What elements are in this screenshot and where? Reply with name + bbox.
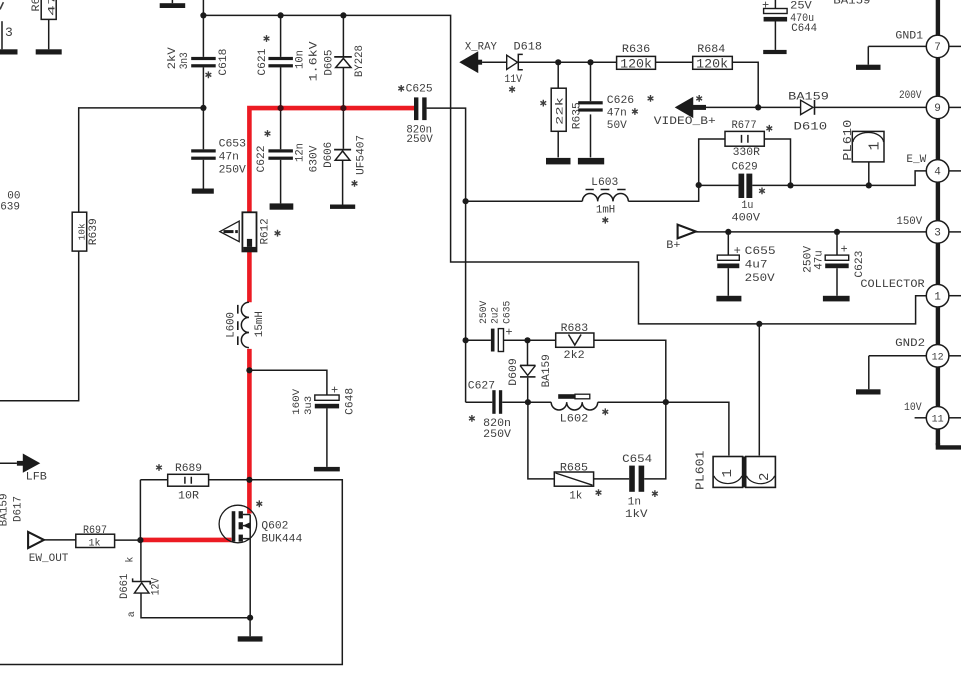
wire junction to D661 xyxy=(140,540,142,581)
inductor L602 xyxy=(551,394,598,410)
asterisk C618 xyxy=(206,71,212,78)
svg-text:E_W: E_W xyxy=(906,154,926,166)
svg-text:1.6kV: 1.6kV xyxy=(309,41,321,81)
wire rail to D605 xyxy=(342,15,344,56)
junction C623 tap xyxy=(834,229,840,235)
ground (C653) xyxy=(192,189,214,194)
wire to R635 xyxy=(557,62,559,88)
wire R639 down and off left edge xyxy=(0,251,79,401)
svg-text:C653: C653 xyxy=(219,139,246,151)
wire R689 left xyxy=(140,479,167,481)
transistor Q602 (BUK444 MOSFET) xyxy=(219,505,257,543)
resistor R683 xyxy=(556,333,594,347)
wire D606 to ground xyxy=(342,160,344,204)
wire node to L603 xyxy=(466,200,583,202)
wire B+ to pin 3 (150V) xyxy=(696,231,927,233)
svg-text:Q602: Q602 xyxy=(261,520,288,532)
wire L603 to R677 branch xyxy=(628,139,725,201)
wire pin4 right stub xyxy=(949,170,961,172)
junction R635 tap xyxy=(555,59,561,65)
ground (C622) xyxy=(270,203,294,209)
svg-text:250V: 250V xyxy=(483,429,511,441)
wire D618 to R636 xyxy=(518,61,616,63)
svg-text:L603: L603 xyxy=(591,177,618,189)
asterisk R689 xyxy=(156,464,162,471)
svg-text:BY228: BY228 xyxy=(354,45,366,77)
svg-text:250V: 250V xyxy=(479,301,490,324)
wire R689 left branch down xyxy=(139,480,141,540)
svg-text:R685: R685 xyxy=(560,462,588,474)
resistor R684 xyxy=(693,56,733,69)
diode D605 (BY228) xyxy=(334,57,352,68)
junction L603 wire xyxy=(463,198,469,204)
svg-text:BA159: BA159 xyxy=(541,354,553,387)
wire C629 right xyxy=(752,184,790,186)
wire R677 right down xyxy=(764,139,790,185)
ground (C655) xyxy=(716,296,741,302)
asterisk C625 xyxy=(398,85,404,92)
svg-text:C626: C626 xyxy=(607,95,634,107)
svg-text:3n3: 3n3 xyxy=(179,52,191,69)
capacitor C635 (electrolytic, horizontal) xyxy=(491,329,504,352)
wire EW_OUT to R697 xyxy=(44,539,76,541)
asterisk R685 xyxy=(596,489,602,496)
svg-text:47n: 47n xyxy=(607,108,627,120)
svg-text:C655: C655 xyxy=(745,246,776,258)
wire C621 top xyxy=(280,15,282,57)
svg-text:2k2: 2k2 xyxy=(564,350,585,362)
resistor R636 xyxy=(617,56,656,69)
svg-text:11V: 11V xyxy=(504,74,522,86)
junction gate node xyxy=(137,537,143,543)
svg-text:12V: 12V xyxy=(150,577,162,595)
wire C627 to L602 xyxy=(502,401,551,403)
asterisk C629 xyxy=(759,188,765,195)
svg-text:R636: R636 xyxy=(622,44,650,56)
svg-text:3: 3 xyxy=(5,25,13,40)
svg-text:BA159: BA159 xyxy=(788,91,829,103)
svg-text:+: + xyxy=(762,0,769,12)
svg-text:R6: R6 xyxy=(31,0,43,12)
asterisk C622 xyxy=(265,130,271,137)
svg-text:47n: 47n xyxy=(219,152,239,164)
wire to R639 xyxy=(79,108,204,212)
ground (C644) xyxy=(763,50,786,54)
wire R6xx to ground xyxy=(48,19,50,49)
wire to C626 xyxy=(590,62,592,101)
svg-text:EW_OUT: EW_OUT xyxy=(29,553,69,565)
wire R683 right down xyxy=(594,340,666,402)
svg-text:+: + xyxy=(331,384,338,398)
wire R684 to VIDEO_B+ node xyxy=(732,62,758,107)
capacitor C654 (vertical plates) xyxy=(629,466,644,492)
capacitor C625 (vertical plates) xyxy=(414,97,427,120)
wire D609 to L602 node xyxy=(527,378,529,403)
asterisk R612 xyxy=(275,230,281,237)
capacitor C655 (electrolytic) xyxy=(717,255,739,268)
wire GND1 down xyxy=(867,46,869,64)
port arrow EW_OUT (outline, pointing right) xyxy=(28,532,44,548)
wire C644 top xyxy=(774,0,776,9)
svg-text:4u7: 4u7 xyxy=(745,260,768,272)
connector pin 4 xyxy=(926,160,949,183)
svg-text:120k: 120k xyxy=(696,58,728,72)
svg-text:R677: R677 xyxy=(732,120,757,132)
capacitor C621 xyxy=(268,57,293,67)
svg-text:250V: 250V xyxy=(219,165,247,177)
svg-text:250V: 250V xyxy=(406,134,433,146)
wire pin1 right stub xyxy=(949,295,961,297)
junction R677/C629 right xyxy=(787,182,793,188)
svg-text:BA159: BA159 xyxy=(833,0,870,7)
junction top rail / C618 xyxy=(200,12,206,18)
wire pin7 to ground xyxy=(868,45,926,47)
svg-text:C618: C618 xyxy=(218,49,230,76)
wire R635 to ground xyxy=(557,131,559,157)
svg-text:C621: C621 xyxy=(257,48,269,75)
svg-text:15mH: 15mH xyxy=(254,311,266,337)
svg-text:+: + xyxy=(734,244,741,258)
ground (R6xx) xyxy=(36,49,62,54)
wire C655 to ground xyxy=(727,268,729,296)
asterisk C626 xyxy=(632,108,638,115)
ground (C623) xyxy=(823,296,850,302)
svg-text:1k: 1k xyxy=(569,491,582,503)
svg-text:R639: R639 xyxy=(88,218,100,245)
wire PL610 stem xyxy=(868,162,870,186)
wire C623 to ground xyxy=(836,268,838,296)
wire C622 to ground xyxy=(280,160,282,204)
wire pin9 right stub xyxy=(949,106,961,108)
wire highlighted red trace: gate segment xyxy=(140,538,231,543)
ground (R635) xyxy=(546,158,571,165)
svg-text:R683: R683 xyxy=(561,323,588,335)
svg-text:UF5407: UF5407 xyxy=(356,135,368,175)
svg-text:BA159: BA159 xyxy=(0,493,11,526)
svg-text:400V: 400V xyxy=(732,213,761,225)
connector spine (thick) xyxy=(936,0,940,445)
svg-text:1u: 1u xyxy=(741,200,753,212)
capacitor C626 xyxy=(578,101,603,111)
asterisk C627 xyxy=(469,415,475,422)
svg-text:VIDEO_B+: VIDEO_B+ xyxy=(654,116,716,128)
junction R683/C654 node xyxy=(663,399,669,405)
inductor L603 (1mH) xyxy=(582,190,628,202)
zener diode D618 xyxy=(507,54,523,69)
svg-text:50V: 50V xyxy=(607,120,627,132)
svg-text:C654: C654 xyxy=(622,454,652,466)
junction PL610 stem xyxy=(866,182,872,188)
svg-text:1: 1 xyxy=(720,469,736,477)
svg-text:820n: 820n xyxy=(483,418,511,430)
svg-text:120k: 120k xyxy=(620,58,652,72)
wire PL601 pin2 stem xyxy=(758,324,760,456)
wire R636 to R684 xyxy=(656,61,693,63)
wire to C627 xyxy=(466,401,493,403)
V mark inside R683 xyxy=(569,335,582,346)
inductor L600 (15mH) xyxy=(238,302,249,347)
wire D610 to pin 9 (200V) xyxy=(815,106,927,108)
asterisk C621 xyxy=(264,35,270,42)
wire to C623 xyxy=(836,232,838,255)
asterisk L602 xyxy=(602,408,608,415)
svg-text:10R: 10R xyxy=(178,490,199,502)
wire to C648 xyxy=(249,370,327,395)
junction VIDEO_B+ node xyxy=(755,104,761,110)
svg-text:D661: D661 xyxy=(119,573,131,599)
wire VIDEO_B+ to D610 xyxy=(706,106,801,108)
junction C655 tap xyxy=(725,229,731,235)
wire R689 right to red trace xyxy=(209,479,250,481)
junction red trace / D606 (dark) xyxy=(340,105,346,111)
diode D609 (BA159) xyxy=(520,365,536,377)
svg-text:R635: R635 xyxy=(572,102,584,129)
junction top rail / C621 xyxy=(278,12,284,18)
svg-text:D610: D610 xyxy=(794,122,828,134)
svg-text:C648: C648 xyxy=(345,388,357,415)
svg-text:10n: 10n xyxy=(295,50,307,69)
wire pin3 right stub xyxy=(949,231,961,233)
wire to C629 xyxy=(699,184,739,186)
svg-text:3: 3 xyxy=(934,228,941,240)
wire C626 to ground xyxy=(590,114,592,157)
asterisk Q602 xyxy=(256,500,262,507)
svg-text:1: 1 xyxy=(934,292,941,304)
svg-text:4: 4 xyxy=(934,167,941,179)
svg-text:C627: C627 xyxy=(468,380,495,392)
svg-text:11: 11 xyxy=(932,415,944,426)
svg-text:R684: R684 xyxy=(697,44,725,56)
junction red trace / C622 (dark) xyxy=(278,105,284,111)
svg-text:+: + xyxy=(841,243,848,257)
wire L602 to PL601 pin1 xyxy=(598,402,729,455)
wire C654 up to node xyxy=(644,402,666,479)
svg-text:3u3: 3u3 xyxy=(304,396,315,415)
port arrow B+ (outline, pointing right) xyxy=(678,225,696,239)
asterisk R635 xyxy=(540,100,546,107)
svg-text:150V: 150V xyxy=(896,216,922,228)
svg-text:630V: 630V xyxy=(309,145,321,172)
svg-text:R612: R612 xyxy=(259,218,271,244)
capacitor C623 (electrolytic) xyxy=(825,255,849,268)
wire to ground xyxy=(249,618,251,637)
capacitor C622 xyxy=(268,149,293,160)
asterisk R677 xyxy=(766,125,772,132)
junction R689 / red trace xyxy=(246,477,252,483)
jumper mark inside R689 xyxy=(185,477,191,484)
asterisk R684 xyxy=(696,95,702,102)
svg-text:25V: 25V xyxy=(790,1,812,13)
wire C648 to ground xyxy=(326,408,328,467)
ground (D606) xyxy=(330,205,355,209)
ground (Q602 source) xyxy=(238,636,263,641)
svg-text:GND1: GND1 xyxy=(895,30,923,42)
wire stub ground top xyxy=(171,0,173,3)
junction top rail / D605 xyxy=(340,12,346,18)
svg-text:+: + xyxy=(505,325,512,339)
svg-text:L602: L602 xyxy=(560,414,589,426)
svg-text:a: a xyxy=(127,611,138,617)
svg-text:PL601: PL601 xyxy=(693,451,707,490)
svg-text:k: k xyxy=(125,557,137,563)
diode D606 (UF5407) xyxy=(334,150,351,161)
ground (C648) xyxy=(314,467,340,472)
svg-text:D609: D609 xyxy=(508,358,520,386)
diagonal mark inside R685 xyxy=(556,473,593,485)
wire pin7 right stub xyxy=(949,45,961,47)
capacitor C644 (electrolytic) xyxy=(764,9,788,22)
zener diode D661 (12V) xyxy=(133,578,151,593)
fusible resistor R612 xyxy=(242,212,256,251)
connector PL601 xyxy=(713,457,775,488)
svg-text:1kV: 1kV xyxy=(625,509,648,521)
svg-text:B+: B+ xyxy=(666,240,680,252)
port arrow X_RAY (filled, pointing left) xyxy=(461,53,482,72)
port arrow VIDEO_B+ (filled, pointing left) xyxy=(676,98,706,117)
svg-text:L600: L600 xyxy=(226,312,238,338)
wire D661 to source node xyxy=(141,593,250,618)
resistor R6xx (clipped top edge) xyxy=(41,0,56,19)
diode D610 (BA159) xyxy=(801,100,815,115)
junction collector wire / PL601 pin2 stem xyxy=(756,321,762,327)
svg-text:12n: 12n xyxy=(295,143,307,162)
svg-text:R689: R689 xyxy=(175,463,202,475)
junction node R639/C653 xyxy=(200,105,206,111)
ground (clipped, left edge) xyxy=(0,49,18,54)
ground (clipped, top edge) xyxy=(160,3,186,8)
svg-text:C625: C625 xyxy=(406,84,433,96)
wire E_W net to pin 4 xyxy=(791,171,927,186)
wire Q602 source down xyxy=(249,515,251,618)
svg-text:C629: C629 xyxy=(732,162,758,174)
svg-text:7: 7 xyxy=(934,42,941,54)
svg-text:R697: R697 xyxy=(83,525,107,537)
jumper mark inside R677 xyxy=(742,135,748,143)
svg-text:47: 47 xyxy=(47,0,59,16)
wire to C655 xyxy=(727,232,729,255)
wire C625 right, down to C635/C627 node xyxy=(427,108,466,402)
svg-text:200V: 200V xyxy=(899,90,922,102)
svg-text:D618: D618 xyxy=(514,42,543,54)
wire down to R685 xyxy=(528,402,554,479)
svg-text:2: 2 xyxy=(757,473,773,481)
capacitor C653 xyxy=(191,149,216,160)
asterisk L603 xyxy=(602,217,608,224)
junction source / ground xyxy=(247,615,253,621)
connector pin 3 xyxy=(926,221,949,244)
junction C626 tap xyxy=(587,59,593,65)
svg-text:22k: 22k xyxy=(555,97,567,125)
capacitor C629 (vertical plates) xyxy=(739,174,753,198)
ground (GND2) xyxy=(856,389,881,394)
svg-text:COLLECTOR: COLLECTOR xyxy=(860,279,925,291)
svg-text:10k: 10k xyxy=(76,223,87,240)
junction D609 bottom xyxy=(525,399,531,405)
svg-text:LFB: LFB xyxy=(26,472,48,484)
wire (clipped pin 3 lead) xyxy=(1,21,3,49)
svg-text:2kV: 2kV xyxy=(167,47,179,69)
connector spine elbow bottom xyxy=(938,443,961,447)
svg-text:C644: C644 xyxy=(791,23,817,35)
resistor R697 xyxy=(76,534,115,547)
asterisk D606 xyxy=(352,180,358,187)
resistor R689 xyxy=(168,474,209,486)
svg-text:639: 639 xyxy=(0,202,20,214)
wire pin12 right stub xyxy=(949,355,961,357)
wire X_RAY to D618 xyxy=(482,61,507,63)
svg-text:GND2: GND2 xyxy=(895,338,925,350)
wire C635 to R683 xyxy=(504,339,556,341)
wire to D609 xyxy=(527,340,529,365)
ground (GND1) xyxy=(856,65,881,70)
capacitor C627 (vertical plates) xyxy=(492,390,502,414)
wire big loop right-bottom xyxy=(0,480,342,665)
wire LFB from left edge xyxy=(0,462,17,464)
warning triangle mark (R612) xyxy=(220,221,239,242)
resistor R639 xyxy=(72,212,87,251)
junction E_W node left xyxy=(696,182,702,188)
svg-text:D606: D606 xyxy=(323,142,335,168)
svg-text:BUK444: BUK444 xyxy=(261,533,302,545)
junction D609 tap xyxy=(524,337,530,343)
svg-text:1: 1 xyxy=(867,141,884,150)
svg-text:D605: D605 xyxy=(324,50,336,76)
svg-text:C635: C635 xyxy=(503,301,514,324)
connector pin 11 xyxy=(926,407,949,430)
svg-text:47u: 47u xyxy=(813,250,825,270)
wire collector net (top rail, down right side to pin 1) xyxy=(203,15,926,324)
svg-text:10V: 10V xyxy=(904,402,922,414)
junction C648 tap xyxy=(246,367,252,373)
wire R685 to C654 xyxy=(594,478,630,480)
asterisk C654 xyxy=(652,490,658,497)
wire C653 to ground xyxy=(202,160,204,189)
svg-text:C622: C622 xyxy=(256,146,268,173)
connector pin 9 xyxy=(926,96,949,119)
connector pin 1 xyxy=(926,284,949,307)
wire R697 to junction xyxy=(115,539,141,541)
clipped glyph top-left corner xyxy=(0,2,3,9)
resistor R677 xyxy=(725,131,764,146)
capacitor C648 (electrolytic) xyxy=(315,395,339,408)
capacitor C618 xyxy=(191,57,216,67)
svg-text:160V: 160V xyxy=(292,389,303,415)
svg-text:12: 12 xyxy=(932,353,944,364)
wire C618 top (to rail junction) xyxy=(202,0,204,57)
wire GND2 down xyxy=(868,356,870,390)
svg-text:X_RAY: X_RAY xyxy=(465,42,497,54)
svg-text:2u2: 2u2 xyxy=(491,307,502,324)
wire pin11 left stub xyxy=(915,417,927,419)
junction C635 wire xyxy=(463,337,469,343)
wire pin12 to ground xyxy=(869,355,927,357)
svg-text:1mH: 1mH xyxy=(596,205,615,217)
svg-text:1k: 1k xyxy=(89,537,101,549)
wire highlighted red trace: C625 left plate, down through R612/L600 to Q602 drain xyxy=(249,108,414,513)
wire C621 to C622 xyxy=(280,67,282,149)
svg-text:D617: D617 xyxy=(13,496,25,522)
connector pin 12 xyxy=(926,345,949,368)
svg-text:9: 9 xyxy=(934,103,941,115)
connector PL610 xyxy=(852,131,884,162)
wire C644 to ground xyxy=(774,22,776,50)
svg-text:C623: C623 xyxy=(854,251,866,278)
resistor R635 xyxy=(551,88,566,131)
wire D605 to D606 xyxy=(342,68,344,149)
asterisk R636 xyxy=(648,95,654,102)
asterisk D618 xyxy=(509,86,515,93)
ground (C626) xyxy=(578,158,604,165)
